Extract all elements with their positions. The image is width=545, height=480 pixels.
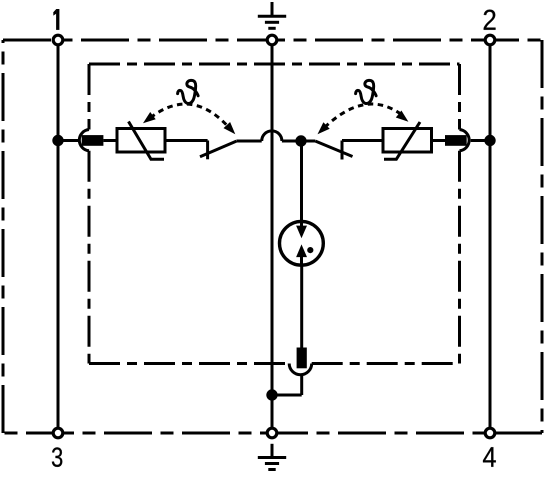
varistor RV1 diagonal stroke <box>129 122 165 160</box>
wire bend to node B <box>272 394 302 397</box>
junction node on terminal-2 line <box>484 135 495 146</box>
inner border detour arc (bottom crossing) <box>289 364 312 375</box>
thermal switch left: fixed contact stub <box>206 141 209 160</box>
spark gap upper electrode arrow shaft <box>300 222 303 228</box>
wire node A to spark gap <box>300 141 303 220</box>
wire left block to varistor <box>103 139 117 142</box>
wire right switch to varistor <box>342 139 383 142</box>
junction node B (bottom earth tap) <box>266 389 277 400</box>
terminal label 3 <box>52 447 62 467</box>
disconnect contact block bottom <box>297 348 307 369</box>
wire right block to terminal-2 line <box>471 139 490 142</box>
thermal switch right: blade <box>315 141 352 157</box>
temperature symbol theta right <box>356 80 377 103</box>
wire terminal 2 to terminal 4 (right vertical) <box>489 40 492 433</box>
wire spark gap to bottom block <box>300 265 303 348</box>
spark gap upper electrode arrowhead <box>296 226 307 239</box>
wire right varistor to right block <box>432 139 446 142</box>
spark gap F1 (gas discharge tube) body <box>280 221 324 265</box>
wire bottom block to bend <box>300 375 303 395</box>
wire node at terminal-1 line to disconnect block <box>58 139 78 142</box>
inner border detour arc (left crossing) <box>79 130 89 151</box>
arrowhead left arc, right end <box>224 122 236 134</box>
arrowhead right arc, right end <box>396 111 409 122</box>
spark gap lower electrode arrow shaft <box>300 257 303 265</box>
wire left varistor to thermal switch <box>165 139 208 142</box>
terminal 2 <box>485 35 495 45</box>
terminal label 2 <box>484 10 496 30</box>
terminal 3 <box>53 428 63 438</box>
arrowhead left arc, left end <box>143 112 156 123</box>
terminal 1 <box>53 35 63 45</box>
spark gap radioactive trigger dot <box>307 247 313 253</box>
spark gap lower electrode arrowhead <box>296 244 307 257</box>
wire top earth to bottom node (centre vertical) <box>271 40 274 433</box>
inner protection-module border (dash-dot) <box>89 64 460 364</box>
bottom earth symbol <box>271 444 274 458</box>
junction node on terminal-1 line <box>52 135 63 146</box>
arrowhead right arc, left end <box>318 122 330 134</box>
varistor RV1 body <box>117 129 165 153</box>
junction node A (spark-gap tap) <box>295 135 306 146</box>
wire terminal 1 to terminal 3 (left vertical) <box>57 40 60 433</box>
thermal switch right: fixed contact stub <box>341 141 344 160</box>
varistor RV2 body <box>383 129 432 153</box>
inner border detour arc (right crossing) <box>460 130 470 151</box>
top earth terminal circle <box>267 35 277 45</box>
wire hop over centre line <box>262 131 282 141</box>
top earth symbol <box>271 2 274 16</box>
temperature symbol theta left <box>178 80 199 103</box>
wire switch to hop <box>236 140 261 143</box>
thermal switch left: blade <box>200 141 236 157</box>
disconnect contact block left <box>82 135 104 146</box>
terminal label 1 <box>53 9 59 30</box>
varistor RV2 diagonal stroke <box>384 122 420 159</box>
thermal response dashed arc right <box>325 104 403 127</box>
bottom earth terminal circle <box>267 428 277 438</box>
terminal label 4 <box>483 447 496 467</box>
wire hop to node A <box>282 140 301 143</box>
wire node A to right thermal switch <box>301 140 315 143</box>
terminal 4 <box>485 428 495 438</box>
disconnect contact block right <box>445 135 467 146</box>
thermal response dashed arc left <box>150 104 228 126</box>
